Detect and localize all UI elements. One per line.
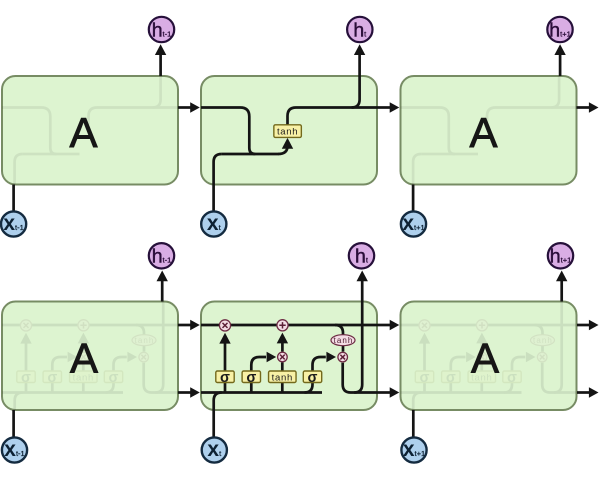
output node h t-1 (top row) (149, 17, 174, 42)
pointwise multiply (forget) (219, 320, 230, 331)
wire: branch up to h output (153, 76, 161, 108)
svg-text:A: A (469, 109, 497, 156)
wire: recurrent input h into tanh (S-bend) (401, 108, 455, 155)
svg-text:σ: σ (220, 370, 230, 386)
wire: tap to forget gate sigma1 (25, 383, 28, 393)
arrow: LSTM cell t up to h t (357, 271, 368, 302)
output node h t (bottom row) (349, 243, 374, 268)
wire: x input rising to join tanh feed (15, 154, 23, 185)
output gate sigma (104, 370, 122, 386)
wire: x input rising to join tanh feed (214, 154, 222, 185)
wire: recurrent input h into tanh (S-bend) (2, 108, 56, 155)
arrow: input gate curve into multiply (52, 357, 67, 371)
input node x t+1 (bottom row) (401, 437, 426, 462)
pointwise multiply (output) (537, 352, 547, 362)
wire: tap to input gate sigma2 (250, 383, 253, 393)
input node x t+1 (top row) (401, 211, 426, 236)
wire: tanh output up and right to cell output (487, 108, 577, 125)
arrow: LSTM cell state t to t+1 (377, 320, 399, 331)
arrow: LSTM hidden t to t+1 (377, 387, 399, 398)
tanh activation ellipse (331, 335, 355, 346)
pointwise multiply (output) (338, 352, 348, 362)
arrow: input gate curve into multiply (251, 357, 266, 371)
pointwise multiply (forget) (419, 320, 430, 331)
arrow: LSTM hidden t-1 to t (178, 387, 200, 398)
arrow: LSTM cell state t+1 out (577, 320, 599, 331)
wire: x input joining hidden line (214, 393, 222, 411)
wire: branch up to h output crossing cell state (354, 302, 362, 393)
svg-text:tanh: tanh (135, 336, 155, 345)
svg-text:A: A (70, 335, 98, 382)
output node h t+1 (bottom row) (548, 243, 573, 268)
wire: branch up to h output (551, 76, 559, 108)
wire: x input rising to join tanh feed (413, 154, 421, 185)
wire: branch up to h output crossing cell state (554, 302, 562, 393)
wire: tap to forget gate sigma1 (224, 383, 227, 393)
wire: x t+1 into cell t+1 (412, 185, 415, 212)
svg-text:σ: σ (308, 370, 318, 386)
svg-text:tanh: tanh (272, 372, 293, 383)
input gate sigma (43, 370, 61, 386)
svg-text:tanh: tanh (533, 336, 553, 345)
arrow: LSTM hidden t+1 out (577, 387, 599, 398)
module box: RNN cell t-1 (2, 76, 178, 185)
wire: new hidden state down from output multiply and right (542, 363, 576, 393)
wire: tanh output up and right to cell output (288, 108, 378, 125)
wire: tap to candidate tanh (480, 383, 483, 393)
arrow: input gate curve into multiply (451, 357, 466, 371)
wire: x t-1 into LSTM cell t-1 (12, 410, 15, 437)
wire: lower feed line into tanh (222, 153, 279, 156)
svg-text:σ: σ (420, 370, 430, 386)
arrow: output gate curve into output multiply (313, 357, 326, 371)
svg-text:σ: σ (246, 370, 256, 386)
arrow: cell t up to h t (354, 44, 365, 76)
output gate sigma (303, 370, 321, 386)
wire: h line curving up into output gate sigma3 (504, 383, 512, 393)
arrow: RNN cell t-1 to cell t (178, 102, 200, 113)
wire: lower feed line into tanh (23, 153, 80, 156)
module box: LSTM cell t+1 (401, 302, 577, 411)
wire: lower feed line into tanh (421, 153, 478, 156)
wire: recurrent input h into tanh (S-bend) (201, 108, 255, 155)
output node h t (top row) (347, 17, 372, 42)
wire: candidate tanh up into multiply (480, 363, 483, 372)
output node h t+1 (top row) (547, 17, 572, 42)
arrow: LSTM cell state t-1 to t (178, 320, 200, 331)
module box: LSTM cell t (201, 302, 377, 411)
wire: tap to candidate tanh (281, 383, 284, 393)
arrow: forget gate up into multiply (219, 333, 230, 371)
svg-text:σ: σ (47, 370, 57, 386)
module box: RNN cell t (201, 76, 377, 185)
input node x t-1 (top row) (1, 211, 26, 236)
svg-text:σ: σ (109, 370, 119, 386)
input node x t (top row) (201, 211, 226, 236)
wire: branch up to h output (352, 76, 360, 108)
wire: x t+1 into LSTM cell t+1 (412, 410, 415, 437)
input gate sigma (442, 370, 460, 386)
wire: cell state branch down to tanh ellipse (535, 325, 543, 335)
svg-text:tanh: tanh (277, 127, 298, 138)
candidate tanh box (468, 371, 496, 383)
arrow: LSTM cell t+1 up to h t+1 (556, 271, 567, 302)
wire: tanh ellipse to output multiply (541, 346, 544, 352)
wire: tap to candidate tanh (82, 383, 85, 393)
wire: hidden state input line h (201, 391, 322, 394)
svg-text:A: A (471, 335, 499, 382)
wire: cell state branch down to tanh ellipse (335, 325, 343, 335)
svg-text:σ: σ (507, 370, 517, 386)
arrow: output gate curve into output multiply (114, 357, 127, 371)
wire: tanh output up and right to cell output (89, 108, 179, 125)
output gate sigma (503, 370, 521, 386)
arrow: forget gate up into multiply (20, 333, 31, 371)
tanh layer box (274, 125, 302, 138)
forget gate sigma (216, 370, 234, 386)
pointwise multiply (forget) (20, 320, 31, 331)
wire: h line curving up into output gate sigma3 (305, 383, 313, 393)
wire: candidate tanh up into multiply (82, 363, 85, 372)
arrow into tanh box (278, 146, 288, 154)
svg-text:σ: σ (446, 370, 456, 386)
arrow: output gate curve into output multiply (512, 357, 525, 371)
wire: new hidden state down from output multiply and right (144, 363, 178, 393)
wire: tanh ellipse to output multiply (143, 346, 146, 352)
wire: cell state branch down to tanh ellipse (136, 325, 144, 335)
wire: cell state line C (401, 324, 577, 327)
wire: x t into LSTM cell t (212, 410, 215, 437)
svg-text:σ: σ (21, 370, 31, 386)
wire: candidate tanh up into multiply (281, 363, 284, 372)
arrow: candidate multiply up into add (277, 333, 288, 352)
candidate tanh box (70, 371, 98, 383)
svg-text:tanh: tanh (334, 336, 354, 345)
wire: tanh ellipse to output multiply (342, 346, 345, 352)
arrow: candidate multiply up into add (476, 333, 487, 352)
arrow: forget gate up into multiply (419, 333, 430, 371)
wire: x t into cell t (212, 185, 215, 212)
pointwise multiply (input) (278, 352, 288, 362)
wire: cell state line C (201, 324, 377, 327)
arrow: cell t-1 up to h t-1 (155, 44, 166, 76)
wire: branch up to h output crossing cell state (155, 302, 163, 393)
pointwise add (476, 320, 487, 331)
tanh activation ellipse (531, 335, 555, 346)
tanh activation ellipse (132, 335, 156, 346)
input node x t (bottom row) (202, 437, 227, 462)
output node h t-1 (bottom row) (149, 243, 174, 268)
svg-text:A: A (69, 109, 97, 156)
wire: x t-1 into cell t-1 (12, 185, 15, 212)
pointwise multiply (input) (477, 352, 487, 362)
candidate tanh box (269, 371, 297, 383)
module box: LSTM cell t-1 (2, 302, 178, 411)
forget gate sigma (415, 370, 433, 386)
wire: x input joining hidden line (413, 393, 421, 411)
arrow: RNN cell t to cell t+1 (377, 102, 399, 113)
wire: hidden state input line h (2, 391, 123, 394)
wire: tap to forget gate sigma1 (423, 383, 426, 393)
wire: cell state line C (2, 324, 178, 327)
wire: tap to input gate sigma2 (449, 383, 452, 393)
forget gate sigma (17, 370, 35, 386)
wire: x input joining hidden line (15, 393, 23, 411)
arrow: candidate multiply up into add (78, 333, 89, 352)
input gate sigma (242, 370, 260, 386)
wire: hidden state input line h (401, 391, 522, 394)
pointwise add (78, 320, 89, 331)
pointwise multiply (input) (79, 352, 89, 362)
pointwise add (277, 320, 288, 331)
arrow: LSTM cell t-1 up to h t-1 (157, 271, 168, 302)
module box: RNN cell t+1 (401, 76, 577, 185)
wire: tap to input gate sigma2 (51, 383, 54, 393)
wire: h line curving up into output gate sigma3 (106, 383, 114, 393)
input node x t-1 (bottom row) (2, 437, 27, 462)
wire: new hidden state down from output multiply and right (343, 363, 377, 393)
pointwise multiply (output) (139, 352, 149, 362)
arrow: cell t+1 up to h t+1 (554, 44, 565, 76)
arrow: RNN cell t+1 output to right edge (577, 102, 599, 113)
